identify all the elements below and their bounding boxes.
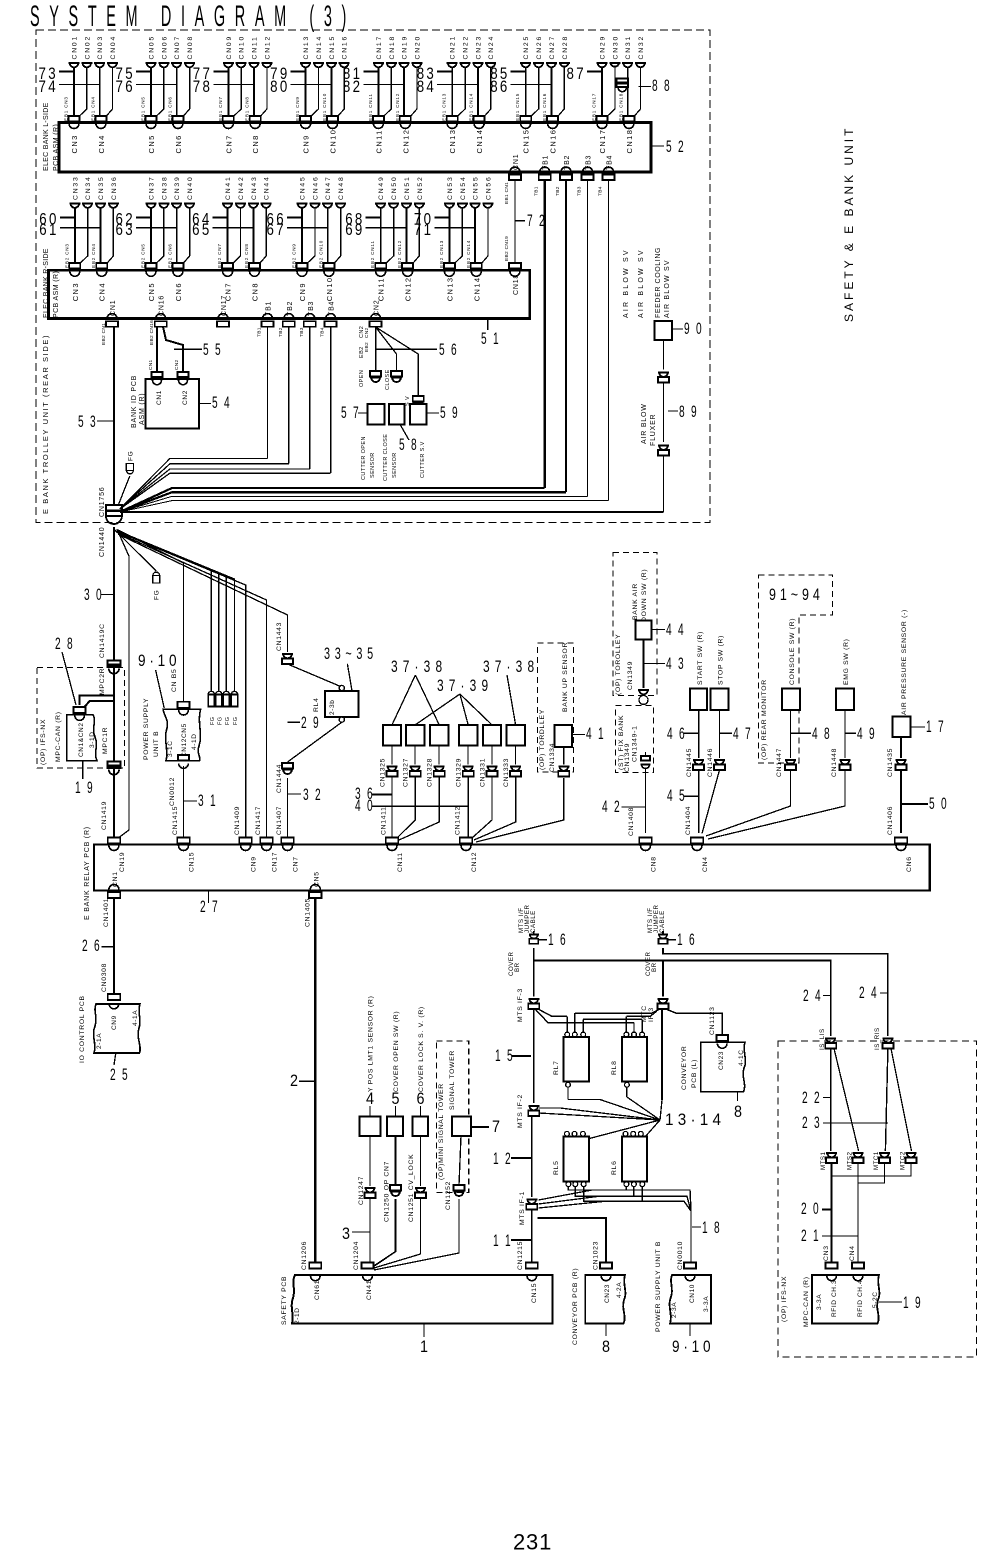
svg-text:CN B5: CN B5 [171, 668, 178, 692]
svg-text:2-1A: 2-1A [96, 1033, 103, 1049]
svg-text:CN18: CN18 [513, 274, 520, 295]
svg-text:CN08: CN08 [187, 35, 194, 60]
svg-text:CN8: CN8 [251, 134, 260, 153]
svg-text:69: 69 [345, 220, 365, 239]
svg-text:BR: BR [651, 962, 658, 972]
svg-text:CN23: CN23 [718, 1051, 725, 1070]
svg-text:EB2 CN10: EB2 CN10 [318, 240, 323, 268]
svg-text:PCB (L): PCB (L) [691, 1059, 698, 1088]
svg-text:ASM (R): ASM (R) [139, 393, 146, 425]
svg-text:EB2 CN11: EB2 CN11 [370, 240, 375, 268]
svg-text:CN11: CN11 [252, 35, 259, 59]
svg-text:CN1327: CN1327 [403, 758, 410, 787]
svg-text:CN2: CN2 [174, 359, 180, 370]
svg-text:2 4: 2 4 [803, 986, 823, 1005]
svg-text:CN34: CN34 [85, 175, 92, 200]
svg-text:CN6: CN6 [906, 856, 913, 872]
svg-text:Y POS LMT1 SENSOR (R): Y POS LMT1 SENSOR (R) [368, 995, 375, 1092]
svg-text:CN1440: CN1440 [99, 527, 106, 557]
svg-text:CN7: CN7 [224, 134, 233, 153]
svg-text:CN1215: CN1215 [517, 1241, 524, 1270]
svg-text:EB1 CN16: EB1 CN16 [542, 93, 547, 121]
svg-text:TB3: TB3 [308, 301, 315, 316]
svg-text:CN6: CN6 [174, 282, 183, 301]
svg-text:CN5: CN5 [147, 134, 156, 153]
svg-text:CN11: CN11 [377, 277, 386, 301]
svg-text:(OP) IFS-NX: (OP) IFS-NX [40, 719, 47, 765]
svg-text:CN03: CN03 [97, 35, 104, 60]
svg-text:CN10: CN10 [239, 35, 246, 60]
svg-text:CN07: CN07 [174, 35, 181, 60]
svg-text:CABLE: CABLE [530, 910, 537, 933]
svg-text:MTS IF-2: MTS IF-2 [517, 1094, 524, 1128]
svg-text:3-1D: 3-1D [89, 732, 96, 749]
svg-text:MPC-CAN (R): MPC-CAN (R) [55, 711, 62, 762]
svg-text:TB2: TB2 [564, 155, 571, 170]
svg-text:1 7: 1 7 [926, 717, 946, 736]
svg-text:CN43: CN43 [251, 175, 258, 200]
svg-text:1: 1 [420, 1337, 428, 1356]
svg-text:CN14: CN14 [472, 277, 481, 302]
svg-text:FEEDER COOLING: FEEDER COOLING [655, 247, 662, 318]
svg-text:EB1 CN14: EB1 CN14 [469, 93, 474, 121]
svg-text:CN19: CN19 [402, 35, 409, 60]
svg-text:EB1 CN6: EB1 CN6 [167, 96, 172, 121]
svg-text:8: 8 [602, 1337, 610, 1356]
svg-text:AIR BLOW SV: AIR BLOW SV [623, 248, 630, 318]
svg-text:CN46: CN46 [312, 175, 319, 200]
svg-text:CN1408: CN1408 [628, 807, 635, 836]
svg-text:4 0: 4 0 [355, 796, 375, 815]
svg-text:CABLE: CABLE [659, 910, 666, 933]
svg-text:TB1: TB1 [543, 155, 550, 170]
svg-text:5 3: 5 3 [78, 412, 98, 431]
svg-text:CN17: CN17 [598, 129, 607, 154]
svg-text:CN19: CN19 [119, 852, 126, 872]
svg-text:EMG SW (R): EMG SW (R) [843, 638, 850, 685]
svg-text:COVER OPEN SW (R): COVER OPEN SW (R) [393, 1011, 400, 1092]
svg-text:CN4: CN4 [849, 1245, 856, 1261]
svg-text:BANK AIR: BANK AIR [632, 583, 639, 620]
svg-text:SAFETY & E BANK UNIT: SAFETY & E BANK UNIT [842, 126, 856, 322]
svg-text:2: 2 [290, 1071, 298, 1090]
svg-text:EB2 CN12: EB2 CN12 [397, 240, 402, 268]
svg-text:CN50: CN50 [391, 175, 398, 200]
svg-text:CN1250 OP CN7: CN1250 OP CN7 [384, 1161, 391, 1222]
svg-text:AIR PRESSURE SENSOR (-): AIR PRESSURE SENSOR (-) [901, 609, 908, 715]
svg-text:82: 82 [343, 77, 363, 96]
svg-text:TB4: TB4 [320, 327, 326, 337]
svg-text:CN1411: CN1411 [381, 806, 388, 835]
svg-text:CN09: CN09 [226, 35, 233, 60]
svg-text:9 · 1 0: 9 · 1 0 [672, 1337, 711, 1356]
svg-text:4 1: 4 1 [586, 724, 606, 743]
svg-text:5 4: 5 4 [212, 393, 232, 412]
svg-text:4-1D: 4-1D [191, 734, 198, 751]
svg-text:CN1206: CN1206 [301, 1241, 308, 1270]
svg-text:CLOSE: CLOSE [385, 369, 391, 390]
svg-text:CN1406: CN1406 [887, 806, 894, 835]
svg-text:CN1404: CN1404 [685, 806, 692, 835]
svg-text:4: 4 [366, 1089, 374, 1108]
svg-text:CONSOLE SW (R): CONSOLE SW (R) [789, 618, 796, 685]
svg-text:CN55: CN55 [473, 175, 480, 200]
svg-text:CN29: CN29 [600, 35, 607, 60]
svg-text:CN51: CN51 [404, 175, 411, 200]
svg-text:EB1 CN8: EB1 CN8 [245, 96, 250, 121]
svg-text:4-1A: 4-1A [132, 1010, 139, 1026]
svg-text:CN38: CN38 [161, 175, 168, 200]
svg-text:EB1 CN12: EB1 CN12 [395, 93, 400, 121]
svg-text:CN1419C: CN1419C [99, 623, 106, 658]
svg-text:EB2 CN6: EB2 CN6 [167, 243, 172, 268]
svg-text:1 1: 1 1 [493, 1231, 513, 1250]
svg-text:(OP)MINI SIGNAL TOWER: (OP)MINI SIGNAL TOWER [438, 1083, 445, 1180]
svg-text:CN1444: CN1444 [276, 764, 283, 793]
svg-text:CN61: CN61 [314, 1280, 321, 1300]
svg-text:65: 65 [192, 220, 212, 239]
svg-text:TB3: TB3 [299, 327, 305, 337]
svg-text:CN23: CN23 [475, 35, 482, 60]
svg-text:CN1401: CN1401 [103, 898, 110, 927]
svg-text:CN8: CN8 [251, 282, 260, 301]
svg-text:EB2 CN14: EB2 CN14 [466, 240, 471, 268]
svg-text:CN4: CN4 [97, 134, 106, 153]
svg-text:5: 5 [392, 1089, 400, 1108]
svg-text:EB1 CN7: EB1 CN7 [218, 96, 223, 121]
svg-text:1 9: 1 9 [903, 1293, 923, 1312]
svg-text:EB2 CN9: EB2 CN9 [292, 243, 297, 268]
svg-text:5-2C: 5-2C [872, 1292, 879, 1309]
svg-text:CN1448: CN1448 [831, 748, 838, 777]
svg-text:CN6: CN6 [174, 134, 183, 153]
svg-text:TB4: TB4 [598, 186, 604, 196]
svg-text:2 8: 2 8 [55, 634, 75, 653]
svg-text:EB1 CN18: EB1 CN18 [618, 93, 623, 121]
svg-text:CN12: CN12 [401, 129, 410, 154]
svg-text:CN31: CN31 [625, 35, 632, 60]
svg-text:CN1325: CN1325 [380, 758, 387, 787]
svg-text:3 7 · 3 8: 3 7 · 3 8 [483, 657, 535, 676]
svg-text:CN1349: CN1349 [627, 661, 634, 690]
svg-text:FG: FG [154, 590, 161, 600]
svg-text:6: 6 [417, 1089, 425, 1108]
svg-text:CN15: CN15 [189, 852, 196, 872]
svg-text:CN5: CN5 [147, 282, 156, 301]
svg-text:OPEN: OPEN [359, 370, 365, 387]
svg-text:2 4: 2 4 [859, 983, 879, 1002]
svg-text:MTS IF-3: MTS IF-3 [517, 988, 524, 1022]
svg-text:TB2: TB2 [278, 327, 284, 337]
svg-text:7 2: 7 2 [527, 211, 547, 230]
svg-text:CN1: CN1 [110, 300, 117, 316]
svg-text:CN2: CN2 [359, 326, 365, 338]
svg-text:CN20: CN20 [414, 35, 421, 60]
svg-text:231: 231 [513, 1530, 552, 1555]
svg-text:CN1415: CN1415 [172, 806, 179, 835]
svg-text:POWER SUPPLY: POWER SUPPLY [143, 698, 150, 760]
svg-text:CN1412: CN1412 [455, 806, 462, 835]
svg-text:CN33: CN33 [72, 175, 79, 200]
svg-text:CUTTER CLOSE: CUTTER CLOSE [383, 434, 389, 481]
svg-text:4 3: 4 3 [666, 654, 686, 673]
svg-text:4 9: 4 9 [857, 724, 877, 743]
svg-text:80: 80 [270, 77, 290, 96]
svg-text:3 7 · 3 9: 3 7 · 3 9 [437, 676, 489, 695]
svg-text:TB2: TB2 [555, 186, 561, 196]
svg-text:CN9: CN9 [251, 856, 258, 872]
svg-text:2 3: 2 3 [802, 1113, 822, 1132]
svg-text:CN0012: CN0012 [169, 777, 176, 806]
svg-text:CN9: CN9 [302, 134, 311, 153]
svg-text:SYSTEM DIAGRAM (3): SYSTEM DIAGRAM (3) [30, 0, 356, 33]
svg-text:CN45: CN45 [300, 175, 307, 200]
svg-text:RL4: RL4 [313, 697, 320, 712]
svg-text:CN52: CN52 [417, 175, 424, 200]
svg-text:EB1 CN11: EB1 CN11 [368, 93, 373, 121]
svg-text:PCB ASM (R): PCB ASM (R) [53, 271, 60, 318]
svg-text:CN10: CN10 [329, 129, 338, 154]
svg-text:CN1435: CN1435 [887, 748, 894, 777]
svg-text:CN4: CN4 [702, 856, 709, 872]
svg-text:CUTTER OPEN: CUTTER OPEN [361, 436, 367, 480]
svg-text:CN56: CN56 [485, 175, 492, 200]
svg-text:CN1247: CN1247 [358, 1176, 365, 1205]
svg-text:9 · 1 0: 9 · 1 0 [138, 651, 177, 670]
svg-text:COVER LOCK S. V. (R): COVER LOCK S. V. (R) [418, 1006, 425, 1092]
svg-text:RL8: RL8 [611, 1060, 618, 1075]
svg-text:CN49: CN49 [378, 175, 385, 200]
svg-text:5 9: 5 9 [440, 403, 460, 422]
svg-text:CN17: CN17 [376, 35, 383, 60]
svg-text:1 5: 1 5 [495, 1046, 515, 1065]
svg-text:3-1C: 3-1C [167, 741, 174, 758]
svg-text:CN1445: CN1445 [686, 748, 693, 777]
svg-text:CN13: CN13 [303, 35, 310, 60]
svg-text:CN1407: CN1407 [276, 806, 283, 835]
svg-text:CN01: CN01 [72, 35, 79, 60]
svg-text:MTS IF-1: MTS IF-1 [519, 1191, 526, 1225]
svg-text:TB3: TB3 [586, 155, 593, 170]
svg-text:4 6: 4 6 [667, 724, 687, 743]
svg-text:AIR BLOW SV: AIR BLOW SV [638, 248, 645, 318]
svg-text:CN41: CN41 [366, 1280, 373, 1300]
svg-text:74: 74 [39, 77, 59, 96]
svg-text:EB1 CN1: EB1 CN1 [504, 182, 510, 204]
svg-text:FLUXER: FLUXER [650, 414, 657, 446]
svg-text:CN16: CN16 [159, 295, 166, 316]
svg-text:CN1443: CN1443 [276, 622, 283, 651]
svg-text:RL5: RL5 [553, 1160, 560, 1175]
svg-text:EB1 CN10: EB1 CN10 [322, 93, 327, 121]
svg-text:CN11: CN11 [374, 129, 383, 153]
svg-text:E BANK TROLLEY UNIT (REAR SIDE: E BANK TROLLEY UNIT (REAR SIDE) [41, 334, 50, 514]
svg-text:POWER SUPPLY UNIT B: POWER SUPPLY UNIT B [655, 1241, 662, 1332]
svg-text:CN17: CN17 [272, 852, 279, 872]
svg-text:SAFETY PCB: SAFETY PCB [281, 1276, 288, 1325]
svg-text:TB1: TB1 [257, 327, 263, 337]
svg-text:1 3 · 1 4: 1 3 · 1 4 [665, 1110, 721, 1129]
svg-text:ELEC BANK L-SIDE: ELEC BANK L-SIDE [43, 102, 50, 171]
svg-text:CN47: CN47 [325, 175, 332, 200]
svg-text:EB2 CN5: EB2 CN5 [141, 243, 146, 268]
svg-text:BR: BR [514, 962, 521, 972]
svg-text:2-3b: 2-3b [329, 700, 336, 715]
svg-text:RL7: RL7 [553, 1060, 560, 1075]
svg-text:BANK UP SENSOR: BANK UP SENSOR [562, 642, 569, 712]
svg-text:CN1446: CN1446 [707, 748, 714, 777]
svg-text:1 9: 1 9 [75, 778, 95, 797]
svg-text:CN54: CN54 [460, 175, 467, 200]
svg-text:FG: FG [233, 717, 239, 725]
svg-text:1 6: 1 6 [677, 930, 697, 949]
svg-text:CN13: CN13 [445, 277, 454, 302]
svg-text:CN1: CN1 [156, 390, 163, 405]
svg-text:CN22: CN22 [463, 35, 470, 60]
svg-text:CN1&CN2: CN1&CN2 [78, 722, 85, 757]
svg-text:CN1: CN1 [148, 359, 154, 370]
svg-text:3 0: 3 0 [84, 585, 104, 604]
svg-text:CN1409: CN1409 [234, 806, 241, 835]
svg-text:CN42: CN42 [238, 175, 245, 200]
svg-text:3-3A: 3-3A [816, 1294, 823, 1310]
svg-text:2-1D: 2-1D [294, 1308, 301, 1325]
svg-text:4 8: 4 8 [812, 724, 832, 743]
svg-text:CN1251 CV_LOCK: CN1251 CV_LOCK [408, 1154, 415, 1222]
svg-text:61: 61 [39, 220, 59, 239]
svg-text:3: 3 [342, 1224, 350, 1243]
svg-text:76: 76 [116, 77, 136, 96]
svg-text:MPC2R: MPC2R [99, 668, 106, 695]
svg-text:CN53: CN53 [447, 175, 454, 200]
svg-text:FG: FG [225, 717, 231, 725]
svg-text:SENSOR: SENSOR [392, 452, 398, 478]
svg-text:4 4: 4 4 [666, 620, 686, 639]
svg-text:E BANK RELAY PCB (R): E BANK RELAY PCB (R) [84, 826, 91, 920]
svg-text:2 6: 2 6 [82, 936, 102, 955]
svg-text:2 5: 2 5 [110, 1065, 130, 1084]
svg-text:CN13: CN13 [448, 129, 457, 154]
svg-text:CN1405: CN1405 [304, 898, 311, 927]
svg-text:5 7: 5 7 [341, 403, 361, 422]
svg-text:EB1 CN4: EB1 CN4 [90, 96, 95, 121]
svg-text:4 7: 4 7 [733, 724, 753, 743]
svg-text:4 5: 4 5 [667, 786, 687, 805]
svg-text:CN1328: CN1328 [427, 758, 434, 787]
svg-text:CN28: CN28 [562, 35, 569, 60]
svg-text:SENSOR: SENSOR [370, 452, 376, 478]
svg-text:3-3A: 3-3A [703, 1296, 710, 1312]
svg-text:CN10: CN10 [325, 277, 334, 302]
svg-text:CN02: CN02 [84, 35, 91, 60]
svg-text:1 6: 1 6 [548, 930, 568, 949]
svg-text:CUTTER S.V: CUTTER S.V [420, 441, 426, 478]
svg-text:CN21: CN21 [450, 35, 457, 60]
svg-text:CN35: CN35 [98, 175, 105, 200]
svg-text:CN15: CN15 [329, 35, 336, 60]
svg-text:CN06: CN06 [161, 35, 168, 60]
svg-text:CN0010: CN0010 [677, 1241, 684, 1270]
svg-text:1 8: 1 8 [702, 1218, 722, 1237]
svg-text:IS_RIS: IS_RIS [874, 1027, 881, 1050]
svg-text:CN48: CN48 [338, 175, 345, 200]
svg-text:CN9: CN9 [298, 282, 307, 301]
svg-text:DOWN SW (R): DOWN SW (R) [641, 569, 648, 622]
svg-text:EB2 CN19: EB2 CN19 [504, 236, 510, 261]
svg-text:RFID CH.3: RFID CH.3 [831, 1280, 838, 1317]
svg-text:CN16: CN16 [549, 129, 558, 154]
svg-text:SIGNAL TOWER: SIGNAL TOWER [449, 1050, 456, 1110]
svg-text:CN14: CN14 [316, 35, 323, 60]
svg-text:CN1329: CN1329 [456, 758, 463, 787]
svg-text:5 1: 5 1 [481, 329, 501, 348]
svg-text:CN1447: CN1447 [776, 748, 783, 777]
svg-text:CN41: CN41 [225, 175, 232, 200]
svg-text:CN30: CN30 [612, 35, 619, 60]
svg-text:4 2: 4 2 [602, 797, 622, 816]
svg-text:CN9: CN9 [111, 1015, 118, 1030]
svg-text:CN1252: CN1252 [445, 1181, 452, 1210]
svg-text:EB1 CN3: EB1 CN3 [64, 96, 69, 121]
svg-text:2 7: 2 7 [200, 897, 220, 916]
svg-text:(OP) TORDLLEY: (OP) TORDLLEY [539, 709, 546, 770]
svg-text:EB2 CN13: EB2 CN13 [439, 240, 444, 268]
svg-text:CN1419: CN1419 [101, 801, 108, 830]
svg-text:CN27: CN27 [549, 35, 556, 60]
svg-text:CN3: CN3 [70, 134, 79, 153]
svg-text:CN1333: CN1333 [503, 758, 510, 787]
svg-text:CN12: CN12 [471, 852, 478, 872]
svg-text:CN39: CN39 [174, 175, 181, 200]
svg-text:(OP) IFS-NX: (OP) IFS-NX [781, 1276, 788, 1322]
svg-text:CN0308: CN0308 [101, 963, 108, 992]
svg-text:CN23: CN23 [604, 1284, 611, 1303]
svg-text:TB4: TB4 [607, 155, 614, 170]
svg-text:FG: FG [218, 717, 224, 725]
svg-text:CN12: CN12 [404, 277, 413, 302]
svg-text:5 5: 5 5 [203, 340, 223, 359]
svg-text:EB2 CN3: EB2 CN3 [64, 243, 69, 268]
svg-text:CN1349-1: CN1349-1 [632, 725, 639, 762]
svg-text:(OP) REAR MONITOR: (OP) REAR MONITOR [761, 679, 768, 760]
svg-text:5 6: 5 6 [439, 340, 459, 359]
svg-text:CN7: CN7 [293, 856, 300, 872]
svg-text:78: 78 [193, 77, 213, 96]
svg-text:BANK ID PCB: BANK ID PCB [131, 375, 138, 428]
svg-text:1 2: 1 2 [493, 1149, 513, 1168]
svg-text:8 9: 8 9 [679, 402, 699, 421]
svg-text:CN14: CN14 [475, 129, 484, 154]
svg-text:CN1204: CN1204 [353, 1241, 360, 1270]
svg-text:CN05: CN05 [149, 35, 156, 60]
svg-text:CN1334: CN1334 [549, 743, 556, 772]
svg-text:4-1C: 4-1C [738, 1050, 745, 1067]
svg-text:3 1: 3 1 [198, 791, 218, 810]
svg-text:3 3 ~ 3 5: 3 3 ~ 3 5 [324, 644, 374, 663]
svg-text:5 0: 5 0 [929, 794, 949, 813]
svg-text:MPC-CAN (R): MPC-CAN (R) [803, 1276, 810, 1327]
svg-text:CN1123: CN1123 [709, 1006, 716, 1035]
svg-text:71: 71 [414, 220, 434, 239]
svg-text:5 8: 5 8 [399, 435, 419, 454]
svg-text:86: 86 [490, 77, 510, 96]
svg-text:CN15: CN15 [522, 129, 531, 154]
svg-text:CN12CN5: CN12CN5 [181, 723, 188, 757]
svg-text:CN3: CN3 [823, 1245, 830, 1261]
svg-text:RL6: RL6 [611, 1160, 618, 1175]
svg-text:EB2 CN4: EB2 CN4 [91, 243, 96, 268]
svg-text:IO CONTROL PCB: IO CONTROL PCB [79, 995, 86, 1063]
